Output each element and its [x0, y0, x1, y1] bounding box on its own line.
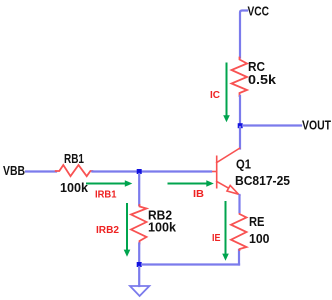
- collector line: [217, 148, 240, 162]
- wire to VOUT: [243, 124, 301, 126]
- svg-text:100k: 100k: [60, 181, 88, 195]
- resistor RB1: [56, 165, 93, 176]
- svg-text:IC: IC: [210, 89, 220, 101]
- current arrow IE: [222, 202, 229, 261]
- node ground junction: [137, 262, 142, 267]
- current arrow IRB2: [124, 204, 131, 257]
- svg-text:100: 100: [249, 232, 270, 246]
- current arrow IRB1: [87, 180, 132, 187]
- svg-text:Q1: Q1: [236, 158, 251, 172]
- wire ground node to RE bottom: [142, 263, 239, 265]
- svg-text:RE: RE: [249, 215, 265, 229]
- svg-text:IB: IB: [193, 188, 204, 200]
- transistor Q1: [211, 148, 240, 194]
- svg-text:0.5k: 0.5k: [248, 73, 276, 87]
- wire ground stem: [138, 267, 140, 286]
- svg-text:IRB2: IRB2: [96, 224, 119, 236]
- resistor RC: [232, 58, 248, 97]
- current arrow IC: [223, 64, 230, 123]
- wire node to collector: [239, 127, 241, 149]
- base lead: [211, 171, 217, 173]
- wire base node down to RB2: [138, 174, 140, 205]
- svg-text:IRB1: IRB1: [95, 189, 117, 201]
- resistor RB2: [131, 205, 147, 244]
- current arrow IB: [169, 180, 214, 187]
- wire RC to VOUT node: [239, 96, 241, 123]
- wire VBB to RB1: [26, 170, 56, 172]
- svg-text:VBB: VBB: [3, 164, 25, 178]
- svg-text:IE: IE: [212, 232, 221, 244]
- svg-text:BC817-25: BC817-25: [235, 174, 290, 188]
- resistor RE: [231, 212, 247, 250]
- emitter arrowhead: [227, 186, 239, 195]
- svg-text:100k: 100k: [148, 221, 176, 235]
- wire RB1 to base node: [92, 170, 211, 172]
- node VOUT junction: [238, 123, 243, 128]
- base bar: [216, 156, 218, 187]
- svg-text:VOUT: VOUT: [302, 119, 331, 133]
- svg-text:RB1: RB1: [64, 152, 84, 166]
- emitter line: [217, 182, 229, 189]
- wire emitter to RE: [238, 195, 240, 212]
- svg-text:VCC: VCC: [248, 5, 270, 19]
- wire VCC tick and down to RC: [240, 11, 247, 58]
- ground symbol: [130, 286, 149, 296]
- node base junction: [137, 169, 142, 174]
- wire up to RE: [238, 250, 240, 265]
- wire RB2 to ground node: [138, 244, 140, 264]
- svg-text:RC: RC: [248, 60, 265, 74]
